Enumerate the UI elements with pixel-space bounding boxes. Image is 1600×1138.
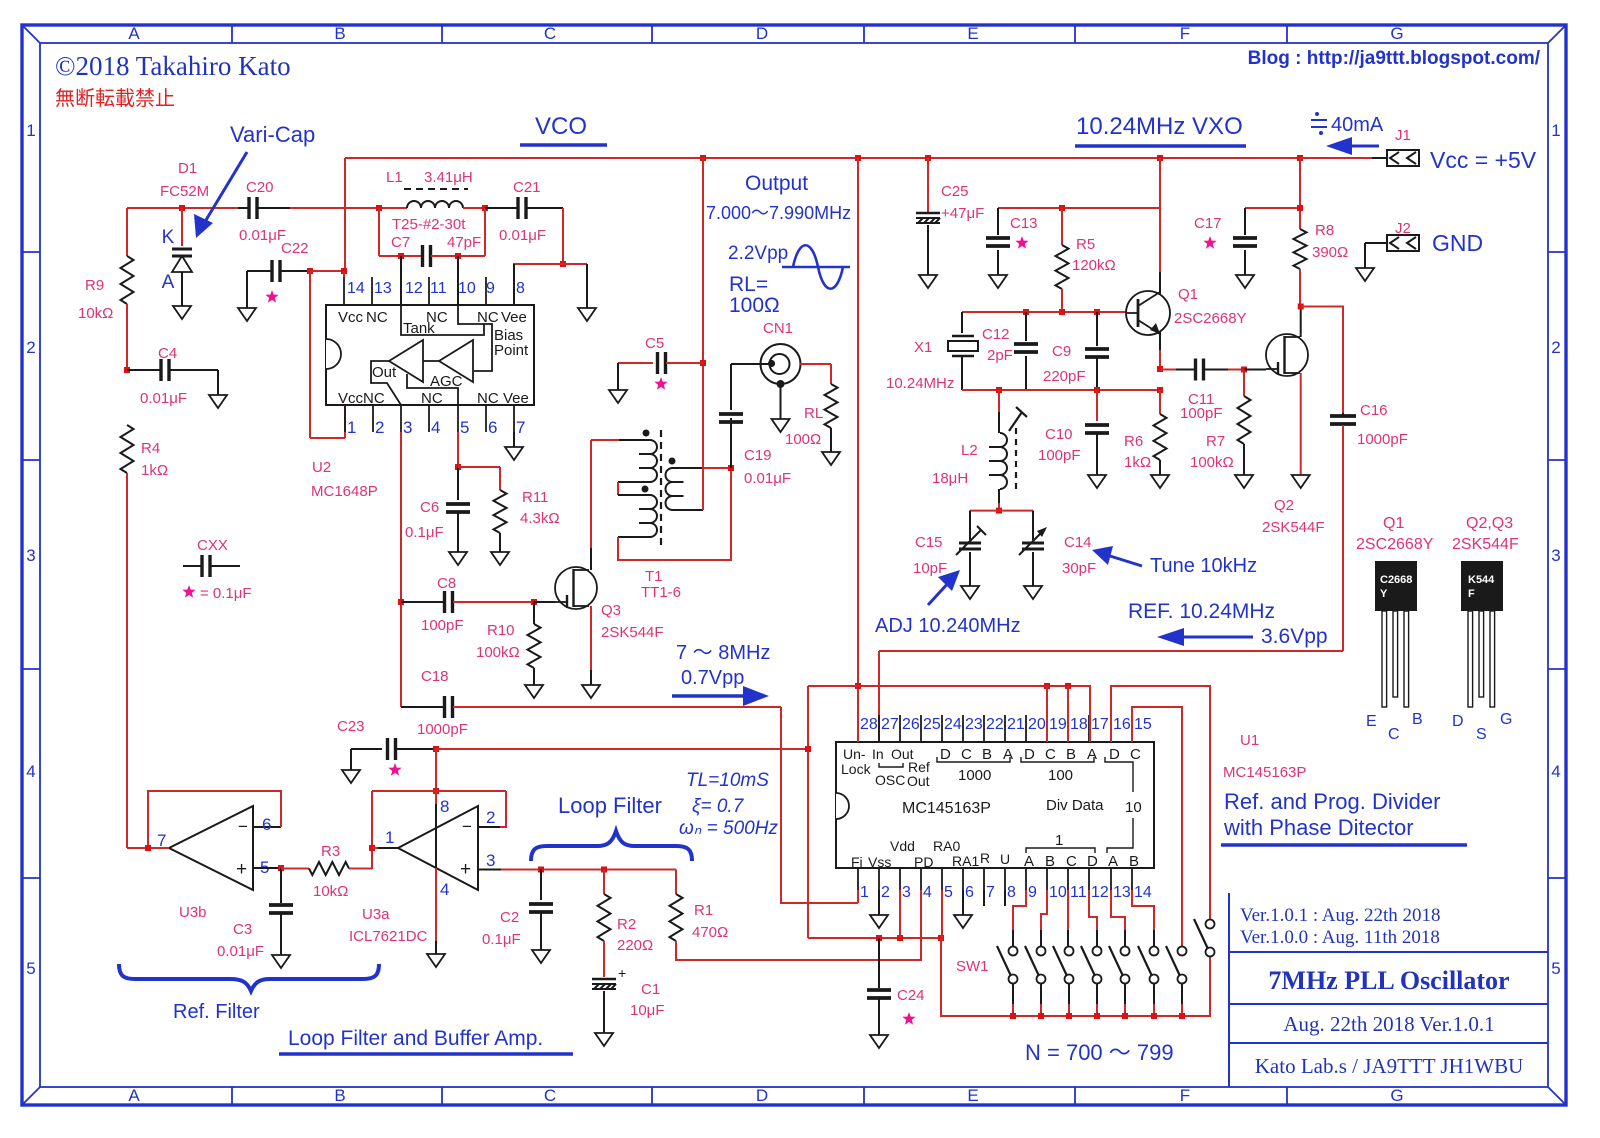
U3b pin7 output wire — [127, 847, 169, 849]
node Vcc bus at x1300 — [1297, 155, 1303, 161]
arrow signal to divider — [672, 694, 748, 697]
svg-text:−: − — [462, 817, 472, 836]
svg-text:5: 5 — [1551, 959, 1560, 978]
node C2 — [538, 867, 544, 873]
svg-text:FC52M: FC52M — [160, 183, 209, 200]
svg-text:2: 2 — [486, 808, 495, 827]
svg-text:7: 7 — [986, 884, 995, 901]
svg-text:TL=10mS: TL=10mS — [686, 770, 769, 791]
svg-text:C18: C18 — [421, 668, 449, 685]
svg-text:D: D — [1452, 713, 1464, 730]
op-amp U3a — [398, 806, 478, 890]
svg-text:R1: R1 — [694, 902, 713, 919]
wire VCO out vertical — [702, 158, 704, 510]
svg-text:3: 3 — [1551, 546, 1560, 565]
capacitor C10 — [1096, 390, 1098, 421]
ground for C15 — [961, 586, 979, 599]
resistor R4 — [121, 425, 134, 473]
wire pin12 tank — [400, 256, 402, 305]
svg-text:0.1μF: 0.1μF — [405, 524, 444, 541]
resistor R2 — [603, 870, 605, 895]
star for C5 — [654, 377, 667, 390]
U1 top pin stubs — [858, 715, 1132, 742]
node D1 top — [179, 205, 185, 211]
svg-text:T1: T1 — [645, 568, 663, 585]
title block frame — [1229, 893, 1548, 1087]
node C8 tap — [398, 599, 404, 605]
ground for R10 — [525, 685, 543, 698]
wire pin5 AGC node — [457, 432, 459, 467]
svg-text:N = 700 ～ 799: N = 700 ～ 799 — [1025, 1040, 1174, 1065]
svg-text:2: 2 — [26, 338, 35, 357]
U2 bottom pin stubs — [345, 405, 514, 432]
node C22 to pin1 wire — [307, 268, 313, 274]
U1 1000 bracket — [937, 757, 1010, 762]
star for C13 — [1015, 236, 1028, 249]
svg-text:3.6Vpp: 3.6Vpp — [1261, 625, 1328, 648]
U3b pin5 node — [253, 867, 281, 869]
svg-text:J1: J1 — [1395, 127, 1411, 144]
svg-text:D: D — [756, 24, 768, 43]
svg-text:G: G — [1390, 1086, 1403, 1105]
resistor R8 — [1299, 158, 1301, 229]
ground for C25 — [919, 275, 937, 288]
svg-text:R2: R2 — [617, 916, 636, 933]
svg-text:5: 5 — [26, 959, 35, 978]
svg-text:4: 4 — [1551, 762, 1560, 781]
svg-text:2SK544F: 2SK544F — [1262, 519, 1325, 536]
capacitor C13 — [997, 208, 999, 235]
wire Q1 base row — [962, 311, 1127, 313]
transistor Q1 2SC2668Y — [1159, 158, 1161, 272]
svg-text:3: 3 — [403, 418, 412, 437]
svg-text:7.000〜7.990MHz: 7.000〜7.990MHz — [706, 203, 851, 223]
resistor RL — [830, 364, 832, 384]
svg-text:220pF: 220pF — [1043, 368, 1086, 385]
wire pin12 to switch4 — [1089, 890, 1097, 930]
svg-text:U2: U2 — [312, 459, 331, 476]
svg-text:PD: PD — [914, 854, 933, 870]
connector J1 — [1387, 150, 1419, 166]
svg-text:10μF: 10μF — [630, 1002, 665, 1019]
svg-text:27: 27 — [881, 716, 899, 733]
svg-text:−: − — [238, 817, 248, 836]
svg-text:0.01μF: 0.01μF — [499, 227, 546, 244]
capacitor C16 — [1301, 307, 1343, 414]
svg-text:C20: C20 — [246, 179, 274, 196]
svg-text:D1: D1 — [178, 160, 197, 177]
wire Vdd bus above U1 — [808, 686, 1090, 742]
connector CN1 — [761, 344, 801, 384]
svg-text:In: In — [872, 746, 884, 762]
node Vdd pin3 — [897, 935, 903, 941]
svg-text:G: G — [1500, 711, 1512, 728]
svg-text:10: 10 — [458, 280, 476, 297]
svg-text:Kato Lab.s / JA9TTT JH1WBU: Kato Lab.s / JA9TTT JH1WBU — [1255, 1054, 1524, 1078]
U3a pin1 output — [372, 847, 380, 849]
svg-text:RL: RL — [804, 405, 823, 422]
svg-text:4: 4 — [440, 880, 449, 899]
node C24 tap — [876, 935, 882, 941]
ground for C6 — [449, 552, 467, 565]
wire Q2 gate — [1244, 369, 1266, 371]
node pin14 Vcc junction — [341, 268, 347, 274]
svg-text:10.24MHz: 10.24MHz — [886, 375, 954, 392]
svg-text:MC145163P: MC145163P — [902, 800, 991, 817]
U1 100 bracket — [1021, 757, 1094, 762]
svg-text:R11: R11 — [522, 489, 548, 506]
svg-text:NC: NC — [477, 390, 499, 407]
IC U2 MC1648P body — [326, 305, 534, 405]
U1 1 bracket — [1026, 848, 1095, 853]
transistor Q2 2SK544F — [1266, 334, 1308, 376]
wire PD to loop filter — [781, 890, 921, 960]
wire C22 node to pin14 — [310, 270, 344, 272]
svg-text:K544: K544 — [1468, 574, 1495, 586]
node L2 bottom — [996, 508, 1002, 514]
wire pin10 bias — [457, 256, 459, 305]
U2 internal tank wire — [401, 305, 484, 335]
U1 OSC bracket — [879, 763, 903, 767]
capacitor C9 — [1094, 309, 1100, 315]
resistor R3 — [281, 868, 309, 870]
brace loop filter — [531, 831, 692, 861]
ground for pin8 Vee — [563, 263, 587, 265]
svg-text:CXX: CXX — [197, 537, 228, 554]
U2 internal amplifier triangles — [389, 340, 473, 382]
svg-text:Ref. and Prog. Divider: Ref. and Prog. Divider — [1224, 789, 1440, 814]
node C23 right — [433, 746, 439, 752]
capacitor C24 — [878, 938, 880, 988]
svg-text:RA1: RA1 — [952, 853, 979, 869]
U2 internal out wire — [371, 361, 401, 405]
svg-text:Loop Filter and Buffer Amp.: Loop Filter and Buffer Amp. — [288, 1027, 543, 1050]
svg-text:Vee: Vee — [503, 390, 529, 407]
capacitor C11 — [1160, 369, 1176, 371]
svg-text:C9: C9 — [1052, 343, 1071, 360]
svg-text:B: B — [334, 24, 345, 43]
svg-text:2.2Vpp: 2.2Vpp — [728, 243, 788, 264]
svg-text:10pF: 10pF — [913, 560, 947, 577]
wire Vcc drop to C22 node — [344, 158, 346, 271]
wire C21 to pin8 — [562, 208, 564, 264]
switch SW1-2 — [1037, 947, 1046, 956]
svg-text:SW1: SW1 — [956, 958, 989, 975]
svg-text:2SK544F: 2SK544F — [1452, 536, 1519, 553]
node C7 to pin12 — [398, 253, 404, 259]
svg-text:47pF: 47pF — [447, 234, 481, 251]
svg-text:4: 4 — [431, 418, 440, 437]
svg-text:Output: Output — [745, 172, 808, 195]
svg-text:R5: R5 — [1076, 236, 1095, 253]
svg-text:3: 3 — [902, 884, 911, 901]
wire bus to pin19 — [1046, 686, 1048, 742]
svg-text:U3b: U3b — [179, 904, 207, 921]
svg-text:4: 4 — [923, 884, 932, 901]
node Vcc bus at x928 — [925, 155, 931, 161]
capacitor C23 — [351, 748, 382, 750]
svg-text:15: 15 — [1134, 716, 1152, 733]
svg-text:25: 25 — [923, 716, 941, 733]
U3a pin8 stub — [435, 791, 437, 804]
wire loop filter row — [501, 869, 676, 871]
switch SW1-7 — [1178, 947, 1187, 956]
current annotation 40mA — [1315, 112, 1323, 135]
ground for D1 — [173, 306, 191, 319]
svg-text:C23: C23 — [337, 718, 365, 735]
svg-text:C3: C3 — [233, 921, 252, 938]
svg-text:Q3: Q3 — [601, 602, 621, 619]
ground for R7 — [1235, 475, 1253, 488]
svg-text:2: 2 — [1551, 338, 1560, 357]
svg-text:11: 11 — [430, 280, 447, 297]
svg-text:1kΩ: 1kΩ — [141, 462, 168, 479]
svg-text:C: C — [1045, 746, 1056, 763]
svg-text:C2: C2 — [500, 909, 519, 926]
svg-text:2: 2 — [375, 418, 384, 437]
svg-text:1kΩ: 1kΩ — [1124, 454, 1151, 471]
node rail to C23 feedback — [805, 746, 811, 752]
ground for C14 — [1024, 586, 1042, 599]
svg-text:J2: J2 — [1395, 220, 1411, 237]
resistor R1 — [675, 870, 677, 895]
svg-text:Q2,Q3: Q2,Q3 — [1466, 515, 1513, 532]
svg-text:14: 14 — [1134, 884, 1152, 901]
svg-text:C7: C7 — [391, 234, 410, 251]
op-amp U3b — [169, 806, 253, 890]
ground for pin2 Vss — [878, 890, 880, 915]
svg-text:U: U — [1000, 851, 1010, 867]
wire pin10 to switch2 — [1041, 890, 1047, 930]
svg-text:Vee: Vee — [501, 309, 527, 326]
svg-text:21: 21 — [1007, 716, 1025, 733]
wire Fi feed down — [781, 707, 858, 903]
svg-text:10kΩ: 10kΩ — [78, 305, 113, 322]
svg-text:R4: R4 — [141, 440, 160, 457]
svg-text:R: R — [980, 850, 990, 866]
capacitor C2 — [540, 870, 542, 901]
svg-text:TT1-6: TT1-6 — [641, 584, 681, 601]
legend star = 0.1uF — [182, 585, 195, 598]
wire pin3 down to C8 and C18 — [400, 432, 402, 707]
svg-text:1: 1 — [385, 828, 394, 847]
wire pin16 to switch 8 — [1111, 686, 1210, 919]
svg-text:100Ω: 100Ω — [785, 431, 821, 448]
wire pin1 Fi — [857, 890, 859, 903]
svg-text:1000pF: 1000pF — [417, 721, 468, 738]
svg-text:C8: C8 — [437, 575, 456, 592]
svg-text:R10: R10 — [487, 622, 515, 639]
capacitor C7 with tank loop — [378, 208, 380, 256]
svg-text:Div Data: Div Data — [1046, 797, 1104, 814]
ground for RL — [822, 452, 840, 465]
svg-text:C19: C19 — [744, 447, 772, 464]
svg-text:30pF: 30pF — [1062, 560, 1096, 577]
svg-text:Tank: Tank — [403, 320, 435, 337]
svg-text:16: 16 — [1113, 716, 1131, 733]
node bus pin18 — [1065, 683, 1071, 689]
node Vcc bus at x703 — [700, 155, 706, 161]
U1 AB bracket — [1107, 818, 1133, 853]
svg-text:2pF: 2pF — [987, 347, 1013, 364]
svg-text:0.01μF: 0.01μF — [744, 470, 791, 487]
svg-text:E: E — [1366, 713, 1377, 730]
svg-text:L2: L2 — [961, 442, 978, 459]
U2 internal AGC wire — [407, 374, 458, 405]
capacitor C6 — [457, 467, 459, 500]
svg-text:390Ω: 390Ω — [1312, 244, 1348, 261]
inductor L2 — [998, 390, 1000, 412]
svg-text:C5: C5 — [645, 335, 664, 352]
svg-text:+47μF: +47μF — [941, 205, 984, 222]
svg-text:Lock: Lock — [841, 761, 872, 777]
wire X1 bottom row — [962, 389, 1160, 391]
svg-text:ξ= 0.7: ξ= 0.7 — [692, 796, 745, 817]
svg-text:0.01μF: 0.01μF — [217, 943, 264, 960]
resistor R10 — [533, 602, 535, 624]
svg-text:Vss: Vss — [868, 854, 891, 870]
svg-text:A: A — [1024, 853, 1034, 870]
node bus pin19 — [1044, 683, 1050, 689]
svg-text:100pF: 100pF — [1038, 447, 1081, 464]
svg-text:Tune 10kHz: Tune 10kHz — [1150, 555, 1257, 577]
U3b pin6 feedback — [253, 826, 281, 828]
wire VCO control line top — [127, 207, 238, 209]
node L1 right — [482, 205, 488, 211]
svg-text:0.01μF: 0.01μF — [239, 227, 286, 244]
wire C23 down to y791 rail — [435, 749, 437, 791]
svg-text:Blog : http://ja9ttt.blogspot.: Blog : http://ja9ttt.blogspot.com/ — [1248, 48, 1541, 69]
switch SW1-1 — [1009, 947, 1018, 956]
connector J2 — [1365, 242, 1387, 244]
capacitor C22 — [246, 271, 248, 308]
ground for R11 — [491, 552, 509, 565]
svg-text:MC1648P: MC1648P — [311, 483, 378, 500]
svg-text:5: 5 — [944, 884, 953, 901]
switch SW1-5 — [1121, 947, 1130, 956]
svg-text:Loop Filter: Loop Filter — [558, 793, 662, 818]
svg-text:12: 12 — [405, 280, 423, 297]
svg-text:D: D — [1024, 746, 1035, 763]
ground for C5 — [609, 390, 627, 403]
svg-text:X1: X1 — [914, 339, 932, 356]
star for C17 — [1203, 236, 1216, 249]
svg-text:A: A — [162, 272, 175, 293]
transistor Q3 2SK544F — [555, 567, 597, 609]
svg-text:Q2: Q2 — [1274, 497, 1294, 514]
capacitor C8 — [401, 601, 444, 603]
svg-text:8: 8 — [1007, 884, 1016, 901]
svg-text:22: 22 — [986, 716, 1004, 733]
svg-text:Un-: Un- — [843, 746, 866, 762]
wire pin5 RA1 down — [938, 935, 944, 941]
capacitor C18 — [401, 706, 444, 708]
svg-text:9: 9 — [486, 280, 495, 297]
node y791 at C23 — [433, 788, 439, 794]
svg-text:D: D — [940, 746, 951, 763]
switch SW1-3 — [1065, 947, 1074, 956]
wire pin15 to switch 7 — [1132, 707, 1182, 947]
wire Q3 drain to T1 — [590, 548, 592, 570]
svg-text:R3: R3 — [321, 843, 340, 860]
wire Vcc rail to pin28 — [857, 158, 859, 742]
node Vcc bus at x1160 — [1157, 155, 1163, 161]
svg-text:VCO: VCO — [535, 113, 587, 140]
capacitor C21 — [485, 207, 518, 209]
svg-text:9: 9 — [1028, 884, 1037, 901]
svg-text:C1: C1 — [641, 981, 660, 998]
pin7 stub R — [983, 890, 985, 906]
IC U1 MC145163P body — [836, 742, 1154, 868]
ground for C10 — [1088, 475, 1106, 488]
svg-text:B: B — [1066, 746, 1076, 763]
ground for pin6 — [962, 890, 964, 915]
svg-text:Q1: Q1 — [1383, 515, 1404, 532]
svg-text:24: 24 — [944, 716, 962, 733]
svg-text:B: B — [1129, 853, 1139, 870]
svg-text:18: 18 — [1070, 716, 1088, 733]
svg-text:2: 2 — [881, 884, 890, 901]
svg-text:= 0.1μF: = 0.1μF — [200, 585, 252, 602]
svg-text:R8: R8 — [1315, 222, 1334, 239]
star for C24 — [902, 1012, 915, 1025]
svg-text:F: F — [1180, 1086, 1190, 1105]
svg-text:B: B — [334, 1086, 345, 1105]
wire gate Q3 — [534, 601, 555, 603]
svg-text:©2018 Takahiro Kato: ©2018 Takahiro Kato — [55, 51, 291, 81]
svg-text:C: C — [961, 746, 972, 763]
svg-text:C6: C6 — [420, 499, 439, 516]
svg-text:2SC2668Y: 2SC2668Y — [1174, 310, 1247, 327]
svg-text:Y: Y — [1380, 588, 1388, 600]
svg-text:13: 13 — [1113, 884, 1131, 901]
svg-text:C14: C14 — [1064, 534, 1092, 551]
svg-text:100kΩ: 100kΩ — [1190, 454, 1234, 471]
transformer T1 — [591, 439, 619, 441]
U3a pin2 stub — [478, 826, 500, 828]
svg-text:C22: C22 — [281, 240, 309, 257]
svg-text:Vdd: Vdd — [890, 838, 915, 854]
svg-text:OSC: OSC — [875, 772, 905, 788]
svg-text:B: B — [1045, 853, 1055, 870]
svg-text:G: G — [1390, 24, 1403, 43]
svg-text:E: E — [967, 1086, 978, 1105]
svg-text:6: 6 — [965, 884, 974, 901]
wire bus to pin18 — [1067, 686, 1069, 742]
svg-text:REF. 10.24MHz: REF. 10.24MHz — [1128, 600, 1275, 623]
brace ref filter — [119, 964, 379, 991]
svg-text:13: 13 — [374, 280, 392, 297]
svg-text:7 ～ 8MHz: 7 ～ 8MHz — [676, 642, 770, 664]
svg-text:26: 26 — [902, 716, 920, 733]
wire C23 node to feedback rail — [436, 748, 808, 750]
arrow current direction — [1348, 145, 1379, 148]
svg-text:7: 7 — [157, 831, 166, 850]
svg-text:3.41μH: 3.41μH — [424, 169, 473, 186]
svg-text:ICL7621DC: ICL7621DC — [349, 928, 428, 945]
svg-text:8: 8 — [440, 797, 449, 816]
svg-text:MC145163P: MC145163P — [1223, 764, 1306, 781]
svg-text:7: 7 — [516, 418, 525, 437]
ground for C3 — [272, 955, 290, 968]
svg-text:10.24MHz VXO: 10.24MHz VXO — [1076, 113, 1243, 140]
svg-text:K: K — [162, 227, 175, 248]
node L1 left — [376, 205, 382, 211]
U3a pin4 ground — [435, 868, 437, 941]
svg-text:1000: 1000 — [958, 767, 991, 784]
svg-text:C16: C16 — [1360, 402, 1388, 419]
svg-text:Vcc: Vcc — [338, 309, 364, 326]
